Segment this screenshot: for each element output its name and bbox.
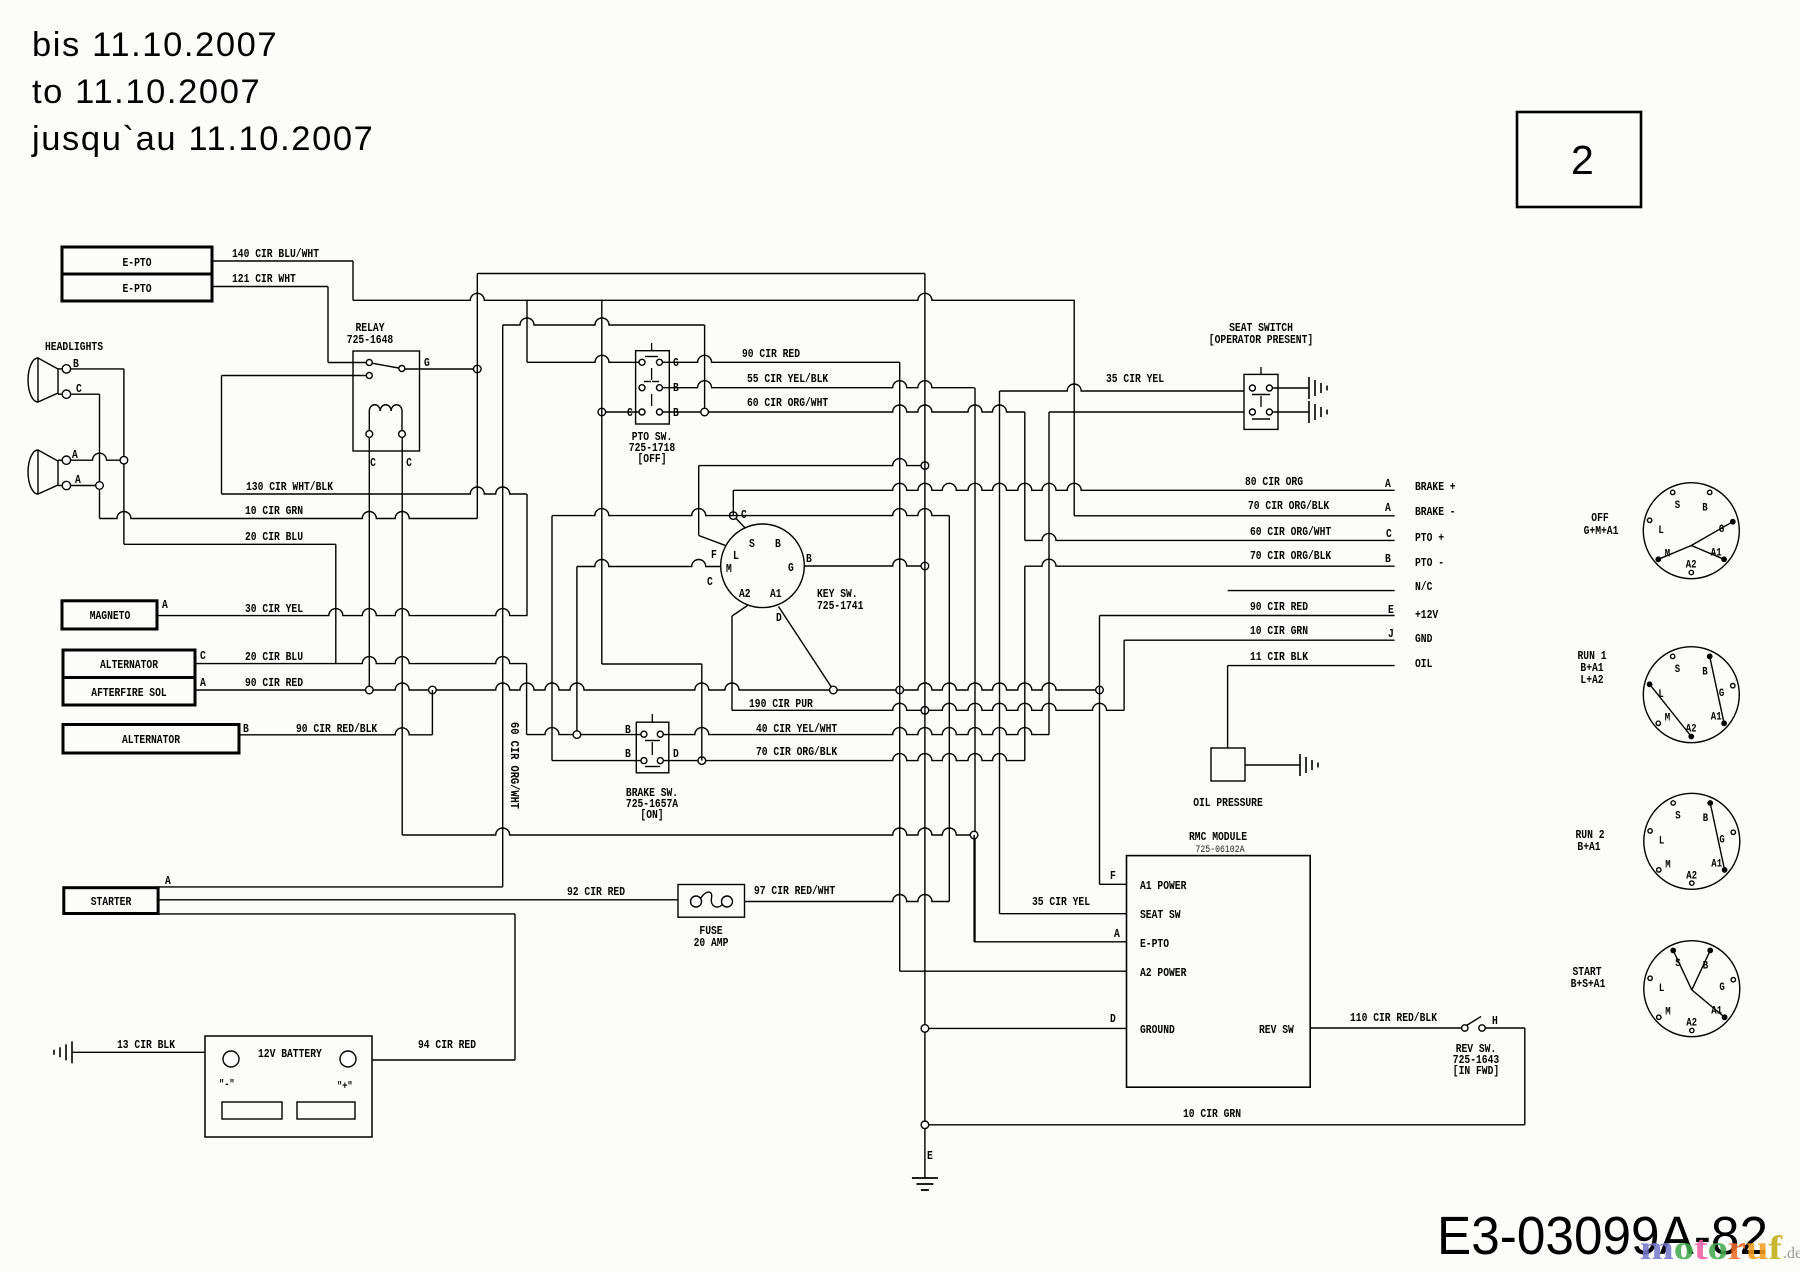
svg-text:C: C: [707, 575, 713, 589]
wire PTO- row: [1025, 559, 1395, 566]
fuse symbol: [691, 896, 702, 907]
wire headlight A upper: [71, 453, 124, 460]
wire starter to battery row: [158, 913, 515, 915]
svg-text:92 CIR RED: 92 CIR RED: [567, 885, 625, 899]
vertical x1024.8 upper: [1024, 412, 1026, 540]
svg-text:121 CIR WHT: 121 CIR WHT: [232, 272, 296, 286]
svg-text:[ON]: [ON]: [640, 808, 663, 822]
svg-text:G+M+A1: G+M+A1: [1584, 524, 1619, 538]
svg-text:E: E: [927, 1149, 933, 1163]
wire branch 140 down x527: [526, 300, 528, 362]
svg-text:G: G: [1719, 835, 1725, 847]
svg-text:A1 POWER: A1 POWER: [1140, 879, 1187, 893]
wire seat lower to ground: [1273, 411, 1309, 413]
wire row y325 60CIR link: [503, 318, 705, 325]
svg-text:20 CIR BLU: 20 CIR BLU: [245, 530, 303, 544]
svg-text:[OPERATOR PRESENT]: [OPERATOR PRESENT]: [1209, 333, 1313, 347]
vertical x527 seg3: [526, 664, 528, 735]
svg-text:L: L: [1658, 525, 1664, 537]
svg-text:20 AMP: 20 AMP: [694, 936, 729, 950]
headlight 1 symbol: [28, 358, 58, 402]
wire rev switch right: [1485, 1027, 1525, 1029]
svg-text:S: S: [1675, 811, 1681, 823]
svg-text:.de: .de: [1783, 1245, 1800, 1262]
svg-text:A1: A1: [1711, 712, 1722, 724]
key wire D diagonal: [779, 607, 834, 691]
svg-text:G: G: [1719, 982, 1725, 994]
vertical bus x924.9 ground net: [924, 274, 926, 1179]
wire headlight C: [71, 393, 100, 395]
svg-text:A2: A2: [1686, 870, 1697, 882]
svg-text:E-PTO: E-PTO: [123, 282, 152, 296]
svg-text:725-1648: 725-1648: [347, 333, 393, 347]
RUN2 contact lines: [1710, 803, 1724, 870]
wire N/C row: [1228, 590, 1395, 592]
wire 97 CIR RED/WHT row: [745, 895, 950, 902]
svg-text:94 CIR RED: 94 CIR RED: [418, 1038, 476, 1052]
svg-text:ALTERNATOR: ALTERNATOR: [100, 658, 159, 672]
wire 90 CIR RED/BLK row: [239, 728, 432, 735]
component E-PTO box 1: [62, 247, 212, 274]
relay coil: [369, 405, 402, 411]
key position OFF circle: [1643, 483, 1739, 579]
wire GROUND stub: [925, 1027, 1127, 1029]
svg-text:A2: A2: [1686, 1018, 1697, 1030]
svg-text:A: A: [1385, 477, 1391, 491]
relay coil wire 2 down: [401, 437, 403, 835]
relay box: [353, 351, 420, 451]
rev switch contacts: [1462, 1025, 1468, 1031]
svg-text:140 CIR BLU/WHT: 140 CIR BLU/WHT: [232, 247, 319, 261]
svg-text:STARTER: STARTER: [91, 895, 132, 909]
svg-text:B: B: [1385, 552, 1391, 566]
KEY SW circle: [721, 524, 805, 608]
key position RUN 2 circle: [1644, 793, 1740, 889]
svg-text:90 CIR RED: 90 CIR RED: [245, 676, 303, 690]
svg-text:A2: A2: [1686, 724, 1697, 736]
svg-text:A1: A1: [1711, 858, 1722, 870]
svg-text:E-PTO: E-PTO: [1140, 937, 1169, 951]
AFTERFIRE SOL box: [63, 678, 195, 706]
wire 40 CIR YEL/WHT right: [664, 728, 1049, 735]
wire +12V row: [1100, 615, 1395, 617]
12V BATTERY box: [205, 1036, 372, 1137]
vertical x1074.2: [1073, 300, 1075, 516]
START contact lines: [1673, 950, 1692, 990]
svg-text:B: B: [775, 537, 781, 551]
ALTERNATOR box 2: [63, 725, 239, 754]
svg-text:B: B: [1703, 960, 1709, 972]
svg-text:55 CIR YEL/BLK: 55 CIR YEL/BLK: [747, 372, 829, 386]
svg-text:OIL PRESSURE: OIL PRESSURE: [1193, 796, 1263, 810]
vertical x1049: [1048, 412, 1050, 735]
oil pressure ground symbol: [1299, 754, 1301, 776]
svg-text:B: B: [625, 747, 631, 761]
wire REV SW row: [1310, 1027, 1461, 1029]
svg-text:90 CIR RED/BLK: 90 CIR RED/BLK: [296, 722, 378, 736]
svg-text:+12V: +12V: [1415, 608, 1439, 622]
vertical x1124.1: [1123, 640, 1125, 710]
brake switch dashes: [651, 714, 653, 722]
svg-text:SEAT SW: SEAT SW: [1140, 908, 1181, 922]
wire 30 CIR YEL: [157, 609, 528, 616]
vertical bus x999.5: [999, 391, 1001, 914]
svg-text:N/C: N/C: [1415, 580, 1432, 594]
key wire C junction: [733, 516, 745, 529]
wire GND row: [1124, 639, 1395, 641]
OFF contact lines: [1691, 522, 1733, 546]
svg-text:B: B: [1703, 813, 1709, 825]
key wire C stub up: [732, 490, 734, 515]
wire A2 POWER stub: [900, 970, 1127, 972]
relay switch arm: [373, 363, 399, 368]
svg-text:13 CIR BLK: 13 CIR BLK: [117, 1038, 176, 1052]
svg-text:OIL: OIL: [1415, 657, 1432, 671]
wire 70 CIR ORG/BLK right: [664, 754, 1025, 761]
svg-text:60 CIR ORG/WHT: 60 CIR ORG/WHT: [747, 396, 828, 410]
svg-text:OFF: OFF: [1591, 511, 1608, 525]
svg-text:C: C: [200, 649, 206, 663]
wire SEAT SW stub: [1000, 913, 1127, 915]
svg-text:A: A: [200, 676, 206, 690]
svg-text:90 CIR RED: 90 CIR RED: [742, 347, 800, 361]
seat upper ground symbol: [1308, 377, 1310, 399]
svg-text:jusqu`au 11.10.2007: jusqu`au 11.10.2007: [31, 120, 374, 158]
svg-text:A1: A1: [770, 587, 782, 601]
MAGNETO box: [62, 601, 157, 629]
key position RUN 1 circle: [1643, 647, 1739, 743]
svg-text:20 CIR BLU: 20 CIR BLU: [245, 650, 303, 664]
wire A1 POWER stub: [1100, 883, 1127, 885]
svg-text:G: G: [1719, 524, 1725, 536]
wire 190 CIR PUR row: [732, 703, 1124, 710]
relay switch pins: [366, 360, 372, 366]
wire 92 CIR RED row: [158, 899, 678, 901]
vertical bus x975: [974, 388, 976, 942]
svg-text:"+": "+": [337, 1081, 353, 1093]
wire 35 CIR YEL to seat switch: [1000, 384, 1245, 391]
svg-text:B: B: [1702, 666, 1708, 678]
svg-text:10 CIR GRN: 10 CIR GRN: [1250, 624, 1308, 638]
battery ground symbol: [71, 1041, 73, 1063]
svg-text:C: C: [1386, 527, 1392, 541]
RMC module box: [1127, 856, 1311, 1088]
svg-text:GROUND: GROUND: [1140, 1023, 1175, 1037]
svg-text:M: M: [1665, 713, 1671, 725]
svg-text:G: G: [424, 356, 430, 370]
brake switch pins: [641, 731, 647, 737]
svg-text:70 CIR ORG/BLK: 70 CIR ORG/BLK: [1250, 549, 1332, 563]
wire 140 CIR BLU/WHT: [212, 260, 353, 262]
svg-text:E: E: [1388, 603, 1394, 617]
wire 40 CIR YEL/WHT left: [527, 728, 641, 735]
component E-PTO box 2: [62, 274, 212, 301]
relay G wire: [405, 368, 477, 370]
key wire M row: [577, 560, 721, 567]
svg-text:110 CIR RED/BLK: 110 CIR RED/BLK: [1350, 1011, 1438, 1025]
svg-text:BRAKE -: BRAKE -: [1415, 505, 1456, 519]
wire 90 CIR RED afterfire row: [195, 683, 1100, 690]
svg-text:G: G: [788, 561, 794, 575]
svg-text:D: D: [1110, 1012, 1116, 1026]
svg-text:A2: A2: [1686, 560, 1697, 572]
vertical x601.8: [601, 300, 603, 664]
svg-text:30 CIR YEL: 30 CIR YEL: [245, 602, 303, 616]
svg-text:M: M: [726, 562, 732, 576]
svg-text:725-1741: 725-1741: [817, 599, 863, 613]
svg-text:REV SW: REV SW: [1259, 1023, 1294, 1037]
PTO switch pins: [639, 359, 645, 365]
key wire F row: [699, 459, 925, 466]
wire 121 CIR WHT: [212, 286, 328, 288]
wire key C row left: [552, 509, 949, 516]
relay coil wire 1 down: [368, 437, 370, 690]
battery cell rects: [222, 1102, 282, 1119]
wire 13 CIR BLK: [72, 1051, 205, 1053]
key wire A2 diagonal: [732, 606, 748, 617]
svg-text:35 CIR YEL: 35 CIR YEL: [1106, 372, 1164, 386]
wire y664 link row: [602, 663, 702, 665]
svg-text:97 CIR RED/WHT: 97 CIR RED/WHT: [754, 884, 835, 898]
wire 70 CIR ORG/BLK left: [552, 760, 641, 762]
svg-text:M: M: [1665, 1007, 1671, 1019]
wire 20 CIR BLU: [124, 543, 336, 545]
vertical bus x899.7: [899, 362, 901, 971]
wire PTO+ row: [1025, 533, 1395, 540]
wire top row y300 to brake- vertical: [353, 293, 1074, 300]
svg-text:H: H: [1492, 1014, 1498, 1028]
vertical x1227.6 to oil pressure: [1227, 666, 1229, 748]
svg-text:S: S: [1675, 500, 1681, 512]
svg-text:E-PTO: E-PTO: [123, 256, 152, 270]
svg-text:70 CIR ORG/BLK: 70 CIR ORG/BLK: [1248, 499, 1330, 513]
svg-text:HEADLIGHTS: HEADLIGHTS: [45, 340, 103, 354]
svg-text:L: L: [733, 549, 739, 563]
vertical x1099.4 upper: [1099, 616, 1101, 691]
svg-text:12V BATTERY: 12V BATTERY: [258, 1047, 322, 1061]
svg-text:C: C: [406, 456, 412, 470]
svg-text:A: A: [1114, 927, 1120, 941]
svg-text:A: A: [162, 598, 168, 612]
svg-text:D: D: [673, 747, 679, 761]
svg-text:F: F: [711, 548, 717, 562]
OIL PRESSURE box: [1211, 748, 1245, 781]
svg-text:A: A: [165, 874, 171, 888]
FUSE box: [678, 885, 745, 918]
key wire G row to ground bus: [804, 559, 925, 566]
svg-text:190 CIR PUR: 190 CIR PUR: [749, 697, 813, 711]
svg-text:70 CIR ORG/BLK: 70 CIR ORG/BLK: [756, 745, 838, 759]
wire 90 CIR RED from PTO G: [663, 355, 900, 362]
svg-text:60 CIR ORG/WHT: 60 CIR ORG/WHT: [507, 722, 521, 809]
svg-text:AFTERFIRE SOL: AFTERFIRE SOL: [91, 686, 166, 700]
svg-text:725-06102A: 725-06102A: [1196, 845, 1245, 856]
svg-text:35 CIR YEL: 35 CIR YEL: [1032, 895, 1090, 909]
svg-text:S: S: [1675, 664, 1681, 676]
wire 20 CIR BLU alternator: [195, 657, 527, 664]
brake switch box: [636, 722, 669, 773]
vertical x1024.8 lower: [1024, 566, 1026, 760]
ALTERNATOR box 1: [63, 650, 195, 678]
svg-text:B: B: [806, 552, 812, 566]
svg-text:C: C: [370, 456, 376, 470]
svg-text:B: B: [243, 722, 249, 736]
PTO switch dashes: [651, 343, 653, 351]
vertical x527 seg2: [526, 494, 528, 616]
svg-text:[IN FWD]: [IN FWD]: [1453, 1064, 1499, 1078]
svg-text:2: 2: [1571, 137, 1594, 183]
earth ground symbol: [912, 1177, 938, 1179]
headlight 2 symbol: [28, 450, 58, 494]
svg-text:80 CIR ORG: 80 CIR ORG: [1245, 475, 1303, 489]
svg-text:RMC MODULE: RMC MODULE: [1189, 830, 1247, 844]
key wire F diagonal: [699, 536, 727, 546]
svg-text:A2 POWER: A2 POWER: [1140, 966, 1187, 980]
svg-text:L: L: [1659, 836, 1665, 848]
svg-text:F: F: [1110, 869, 1116, 883]
svg-text:bis 11.10.2007: bis 11.10.2007: [32, 26, 278, 64]
RUN1 contact lines: [1650, 684, 1692, 736]
wire E-PTO stub: [974, 941, 1126, 943]
svg-text:[OFF]: [OFF]: [638, 452, 667, 466]
svg-text:MAGNETO: MAGNETO: [90, 609, 131, 623]
svg-text:130 CIR WHT/BLK: 130 CIR WHT/BLK: [246, 480, 334, 494]
wire headlight A lower: [71, 485, 100, 487]
svg-text:to 11.10.2007: to 11.10.2007: [32, 73, 261, 111]
svg-text:C: C: [627, 406, 633, 420]
wire 10 CIR GRN: [100, 512, 478, 519]
svg-text:S: S: [749, 537, 755, 551]
svg-text:M: M: [1665, 859, 1671, 871]
svg-text:60 CIR ORG/WHT: 60 CIR ORG/WHT: [1250, 525, 1331, 539]
wire starter A row: [158, 886, 503, 888]
relay ground vertical x477: [476, 274, 478, 519]
svg-text:90 CIR RED: 90 CIR RED: [1250, 600, 1308, 614]
svg-text:10 CIR GRN: 10 CIR GRN: [1183, 1107, 1241, 1121]
wire seat lower: [1049, 411, 1244, 413]
svg-text:A2: A2: [739, 587, 751, 601]
svg-text:G: G: [1719, 688, 1725, 700]
svg-text:J: J: [1388, 627, 1394, 641]
wire 60 CIR ORG/WHT from PTO: [663, 405, 1025, 412]
wire relay pin2 from headlight bus: [222, 375, 366, 377]
svg-text:PTO -: PTO -: [1415, 556, 1444, 570]
svg-text:B: B: [1702, 502, 1708, 514]
svg-text:"-": "-": [219, 1079, 235, 1091]
wire headlight B: [71, 368, 124, 370]
seat switch box: [1244, 374, 1278, 429]
wire BRAKE- row: [1074, 515, 1394, 517]
svg-text:motoruf: motoruf: [1640, 1230, 1783, 1267]
wire 10 CIR GRN bottom row: [925, 1124, 1525, 1126]
svg-text:D: D: [776, 611, 782, 625]
STARTER box: [64, 888, 158, 914]
seat switch dashes: [1260, 367, 1262, 374]
relay coil2 row to EPTO bus: [402, 828, 974, 835]
page number box 2: [1517, 112, 1641, 207]
svg-text:10 CIR GRN: 10 CIR GRN: [245, 504, 303, 518]
PTO switch box: [636, 351, 670, 424]
key position START circle: [1644, 941, 1740, 1037]
battery terminals: [223, 1051, 239, 1067]
svg-text:PTO +: PTO +: [1415, 531, 1444, 545]
svg-text:A: A: [1385, 501, 1391, 515]
wire 94 CIR RED: [372, 1059, 515, 1061]
seat switch pins: [1249, 385, 1255, 391]
svg-text:B+S+A1: B+S+A1: [1571, 977, 1606, 991]
svg-text:B: B: [673, 406, 679, 420]
svg-text:B+A1: B+A1: [1577, 840, 1600, 854]
wire PTO row3 left junction: [602, 411, 639, 413]
wire key C to BRAKE+ row: [733, 483, 1394, 490]
svg-text:BRAKE +: BRAKE +: [1415, 480, 1456, 494]
vertical bus x949.3: [948, 516, 950, 902]
wire seat upper to ground: [1273, 387, 1309, 389]
wire OIL row: [1228, 665, 1395, 667]
svg-text:GND: GND: [1415, 632, 1432, 646]
wire PTO row1 left from 140: [527, 355, 639, 362]
svg-text:11 CIR BLK: 11 CIR BLK: [1250, 650, 1309, 664]
svg-text:L+A2: L+A2: [1580, 673, 1603, 687]
seat lower ground symbol: [1308, 401, 1310, 423]
oil pressure wire to ground: [1245, 764, 1300, 766]
svg-text:ALTERNATOR: ALTERNATOR: [122, 733, 181, 747]
wire 130 CIR WHT/BLK: [222, 487, 527, 494]
svg-text:L: L: [1659, 983, 1665, 995]
wire row y273.5 ground link: [477, 273, 925, 275]
wire vertical x704.6: [704, 325, 706, 412]
wire 55 CIR YEL/BLK: [663, 381, 975, 388]
